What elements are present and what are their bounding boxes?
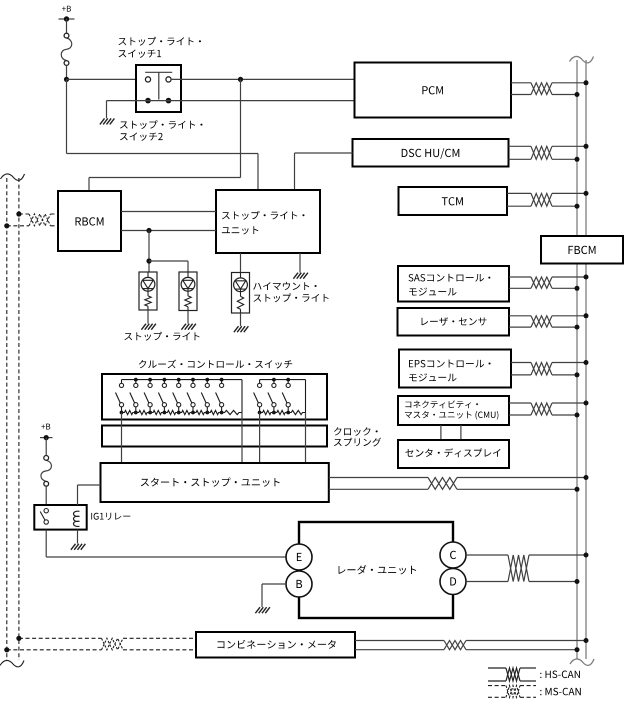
label IG1 relay xyxy=(91,513,130,520)
wire unit to high mount lamp xyxy=(240,253,242,273)
node junction lamp branch xyxy=(146,258,151,263)
lamp stop light 2 xyxy=(179,272,197,311)
terminal C xyxy=(440,542,466,568)
ECU box DSC HU/CM xyxy=(353,139,509,167)
wire MS-CAN bus line A (dashed left) xyxy=(6,178,8,660)
label laser sensor xyxy=(422,317,487,325)
wire radar B to ground xyxy=(262,584,286,607)
node junction switch1/branch xyxy=(238,77,243,82)
node +B terminal 2 xyxy=(40,424,53,441)
label radar unit xyxy=(339,565,417,574)
wire switch2 line to PCM xyxy=(107,100,355,102)
wire HS-CAN bus line B (right of pair) xyxy=(585,60,587,659)
label MS-CAN xyxy=(540,688,581,696)
wire +B junction down xyxy=(66,79,68,153)
ground lamp3 xyxy=(234,326,239,332)
wire cruise to start stop unit 1 xyxy=(121,413,123,464)
switch cruise buttons left group xyxy=(116,378,243,415)
relay IG1 coil xyxy=(74,511,80,526)
switch box cruise control xyxy=(102,374,327,420)
ground stop light unit xyxy=(293,273,298,279)
label stop light lamps xyxy=(124,332,199,341)
wire +B2 to fuse xyxy=(45,438,47,456)
ECU box RBCM xyxy=(58,191,121,251)
ECU box EPS control module xyxy=(399,350,511,388)
node junction stop lamp feed xyxy=(146,228,151,233)
ground lamp2 xyxy=(181,324,186,330)
twisted pair radar C/D to HS-CAN xyxy=(466,553,589,585)
twisted pair CMU to HS-CAN xyxy=(509,401,589,418)
label RBCM xyxy=(76,217,104,225)
wire to stop light unit top left xyxy=(67,154,259,191)
twisted pair EPS to HS-CAN xyxy=(511,360,589,377)
wire cruise to start stop unit 3 xyxy=(259,413,261,464)
twisted pair start stop unit to HS-CAN xyxy=(329,475,589,492)
label PCM xyxy=(422,86,443,94)
lamp stop light 1 xyxy=(139,272,157,310)
switch box stop light switch 1/2 xyxy=(136,65,181,112)
wire relay switch to radar E xyxy=(46,530,286,557)
wire HS-CAN bus line A (left of pair) xyxy=(576,60,578,659)
HS-CAN bus break symbol bottom xyxy=(570,659,594,665)
ground stop light switch 2 xyxy=(100,118,105,124)
twisted pair RBCM to MS-CAN (dashed) xyxy=(4,211,58,228)
twisted pair meter to HS-CAN xyxy=(355,638,589,652)
label EPS xyxy=(409,360,491,382)
switch cruise buttons right group xyxy=(254,378,306,415)
label combination meter xyxy=(218,640,336,649)
wire CMU to center display xyxy=(441,425,461,440)
wire branch to lamp2 xyxy=(149,261,188,272)
fuse F1 xyxy=(61,38,72,61)
label stop light switch 2 xyxy=(120,120,203,141)
ECU box start stop unit xyxy=(101,463,329,502)
twisted pair meter to MS-CAN (dashed) xyxy=(4,636,196,653)
wire DSC to stop light unit xyxy=(295,153,353,190)
wire switch2 to ground xyxy=(106,101,108,119)
terminal E xyxy=(286,544,312,570)
wire RBCM to unit lower xyxy=(121,230,216,232)
twisted pair PCM to HS-CAN xyxy=(511,80,589,97)
label FBCM xyxy=(569,246,596,254)
ground IG1 relay xyxy=(71,544,76,550)
box clock spring xyxy=(102,426,327,447)
wire RBCM to unit upper xyxy=(121,211,216,213)
switch SW1 contacts xyxy=(145,72,172,99)
wire unit to ground xyxy=(299,253,301,273)
node +B terminal 1 xyxy=(59,6,75,22)
ECU box FBCM xyxy=(541,236,623,264)
label CMU xyxy=(405,400,499,419)
wire fuse2 to relay xyxy=(45,486,47,505)
wire lamp1 to ground xyxy=(147,310,149,324)
wire cruise to start stop unit 4 xyxy=(305,413,307,464)
wire relay coil to start stop unit xyxy=(78,485,101,505)
ECU box PCM xyxy=(355,63,512,118)
switch SW2 contacts xyxy=(145,98,171,104)
wire +B1 to fuse xyxy=(66,19,68,33)
label stop light unit xyxy=(222,211,305,235)
wire branch to RBCM top xyxy=(89,79,241,191)
lamp high mount stop light xyxy=(232,273,250,314)
label stop light switch 1 xyxy=(119,37,202,58)
label clock spring xyxy=(334,427,381,446)
wire junction down to lamp1 xyxy=(148,231,150,273)
MS-CAN bus break symbol bottom xyxy=(0,660,24,666)
terminal D xyxy=(440,569,466,595)
twisted pair DSC to HS-CAN xyxy=(509,144,589,162)
label start stop unit xyxy=(141,478,280,487)
twisted pair SAS to HS-CAN xyxy=(509,275,589,291)
twisted pair laser to HS-CAN xyxy=(509,313,589,329)
fuse F2 xyxy=(41,460,52,481)
MS-CAN bus break symbol top xyxy=(1,174,25,180)
wire cruise to start stop unit 2 xyxy=(241,413,243,464)
ground radar unit B xyxy=(255,607,260,613)
label cruise control switch xyxy=(139,360,292,369)
twisted pair TCM to HS-CAN xyxy=(507,191,589,209)
ECU box stop light unit xyxy=(216,190,320,253)
wire lamp2 to ground xyxy=(187,311,189,324)
node junction +B distribution xyxy=(64,77,69,82)
legend MS-CAN symbol xyxy=(488,686,536,698)
wire fuse1 to junction xyxy=(66,65,68,79)
label SAS xyxy=(409,274,491,296)
label DSC HU/CM xyxy=(402,148,460,159)
label TCM xyxy=(442,197,463,205)
ECU box radar unit xyxy=(299,522,453,618)
label HS-CAN xyxy=(540,671,580,679)
relay IG1 switch contacts xyxy=(40,509,48,525)
label center display xyxy=(405,448,500,457)
wire MS-CAN bus line B (dashed right) xyxy=(18,178,20,660)
relay box IG1 xyxy=(34,505,86,530)
label high mount stop light xyxy=(253,282,328,302)
wire lamp3 to ground xyxy=(240,313,242,326)
wire relay coil to ground xyxy=(77,530,79,544)
box combination meter xyxy=(196,632,355,658)
ECU box connectivity master unit xyxy=(398,396,509,425)
ground lamp1 xyxy=(141,324,146,330)
HS-CAN bus break symbol top xyxy=(570,56,594,62)
wire switch1 out to PCM xyxy=(171,78,355,80)
ECU box SAS control module xyxy=(398,266,509,302)
terminal B xyxy=(286,571,312,597)
ECU box laser sensor xyxy=(398,308,510,336)
box center display xyxy=(398,440,509,468)
ECU box TCM xyxy=(399,187,508,215)
legend HS-CAN symbol xyxy=(488,668,536,681)
wire +B junction to stop light switch xyxy=(67,78,146,80)
